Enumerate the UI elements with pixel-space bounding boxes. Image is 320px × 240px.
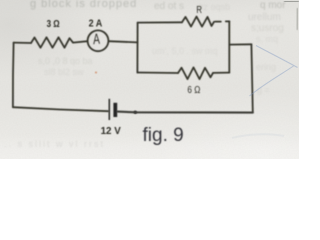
resistor R1 3-ohm zigzag — [31, 37, 73, 47]
wire dash to corner — [226, 20, 230, 22]
wire right vertical rail — [251, 44, 252, 112]
wire left vertical — [12, 43, 15, 108]
resistor 6-ohm zigzag — [178, 67, 213, 79]
ammeter A1 circle — [88, 30, 109, 51]
wire battery to bottom left — [13, 107, 108, 111]
resistor R zigzag — [182, 17, 214, 27]
wire box left vertical (node B) — [136, 23, 138, 73]
wire top branch to resistor R — [138, 21, 182, 23]
wire 6-ohm to box right — [213, 72, 229, 74]
wire jog node C to right rail — [229, 43, 251, 45]
battery V1 positive plate — [109, 99, 111, 120]
battery V1 negative plate — [113, 103, 117, 117]
svg-text:12 V: 12 V — [101, 126, 122, 137]
svg-text:3 Ω: 3 Ω — [47, 18, 60, 29]
wire box right vertical (node C) — [228, 21, 230, 72]
wire ammeter to node B (box left) — [108, 41, 137, 42]
svg-text:6 Ω: 6 Ω — [187, 84, 200, 95]
wire bottom branch to resistor 6-ohm — [137, 72, 178, 75]
svg-text:2 A: 2 A — [89, 18, 103, 30]
svg-text:fig. 9: fig. 9 — [143, 125, 184, 146]
svg-text:R: R — [196, 4, 202, 15]
svg-text:A: A — [93, 30, 101, 48]
wire bottom right to battery — [118, 112, 253, 113]
wire R1 to ammeter — [73, 41, 88, 42]
wire top-left to resistor R1 — [14, 42, 31, 44]
node D junction dot — [134, 111, 137, 114]
wire dash after R — [215, 21, 221, 23]
